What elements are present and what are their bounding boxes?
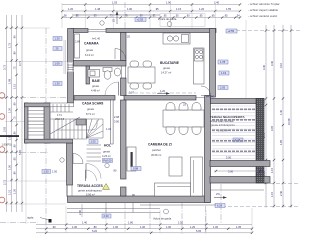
hol circle symbol (105, 163, 109, 167)
camara door arc (115, 49, 126, 60)
svg-text:.60: .60 (13, 102, 17, 106)
svg-text:3.10: 3.10 (279, 62, 283, 68)
svg-text:0.98: 0.98 (133, 167, 139, 171)
svg-text:3.40: 3.40 (262, 64, 266, 70)
svg-text:1.40: 1.40 (259, 170, 265, 174)
svg-text:1.50: 1.50 (178, 221, 184, 225)
wall left terasa edge (66, 185, 68, 197)
exterior stair wall top (25, 103, 51, 107)
svg-text:1.30: 1.30 (55, 37, 61, 41)
window in left wall (0, 0, 1, 1)
svg-text:gresie: gresie (92, 84, 100, 88)
svg-text:gresie: gresie (86, 48, 94, 52)
exterior stair wall bottom (25, 139, 73, 143)
svg-text:gresie: gresie (87, 107, 95, 111)
svg-text:+2.55: +2.55 (137, 18, 144, 22)
stair winder fan (87, 119, 104, 138)
svg-text:.65: .65 (199, 14, 203, 18)
svg-text:1.90: 1.90 (166, 1, 172, 5)
blue box top right (226, 29, 237, 33)
wall stub stair/hol (111, 100, 114, 144)
svg-text:2.92: 2.92 (3, 126, 7, 132)
stair walk line arrow (56, 120, 97, 130)
svg-text:+2.55: +2.55 (228, 29, 235, 33)
dashed level line top right (236, 30, 300, 32)
svg-text:1.05: 1.05 (91, 140, 97, 144)
dim chain bottom line 1 (36, 224, 252, 226)
svg-text:CAMARA: CAMARA (84, 42, 99, 46)
dining table kitchen (128, 67, 155, 83)
svg-text:.65: .65 (224, 14, 228, 18)
dim chain left line 4 (21, 15, 23, 212)
closet blue box (42, 170, 51, 174)
svg-text:1:50(P0): 1:50(P0) (2, 143, 12, 147)
svg-text:TERASA ACCES: TERASA ACCES (77, 184, 104, 188)
svg-text:.80: .80 (13, 131, 17, 135)
stair newel pier (76, 119, 86, 125)
svg-text:5.00: 5.00 (226, 156, 232, 160)
dim chain bottom line 2 (36, 228, 252, 230)
svg-text:1.98: 1.98 (8, 78, 12, 84)
svg-text:Volum de garda: Volum de garda (153, 217, 172, 221)
dim chain right line 2 (273, 25, 275, 208)
terrace top wall band (211, 99, 265, 104)
svg-text:.60: .60 (186, 14, 190, 18)
svg-text:1.20: 1.20 (199, 7, 205, 11)
svg-text:1.05: 1.05 (236, 225, 242, 229)
stair top band to main wall (50, 103, 74, 107)
svg-text:gresie: gresie (103, 150, 111, 154)
wall bottom exterior (68, 196, 211, 203)
closet door arc (73, 154, 83, 164)
svg-text:parchet: parchet (152, 148, 161, 152)
svg-text:1.32: 1.32 (106, 127, 112, 131)
svg-text:2.40: 2.40 (279, 190, 283, 196)
svg-text:1.20: 1.20 (68, 7, 74, 11)
chairs living table bottom (166, 127, 175, 135)
extension lines from left dims to building (5, 28, 67, 204)
garage door opening top (88, 29, 106, 31)
svg-text:- ochiuri aluminiu Tmplar: - ochiuri aluminiu Tmplar (248, 2, 280, 6)
svg-text:1.30: 1.30 (55, 82, 61, 86)
interior upper flight treads (50, 104, 73, 112)
svg-text:1.50: 1.50 (52, 170, 58, 174)
wall top exterior right part (106, 29, 216, 33)
svg-text:.54: .54 (236, 14, 240, 18)
wall right kitchen block (210, 29, 216, 98)
stair level box (89, 140, 98, 144)
section cut mark left (0, 135, 19, 137)
svg-text:gresie antiderapanta: gresie antiderapanta (211, 123, 235, 127)
blue box below steps (102, 214, 111, 218)
svg-text:14.27 m²: 14.27 m² (161, 71, 171, 75)
stair lower treads to hol (87, 145, 102, 161)
svg-text:4.23 m²: 4.23 m² (102, 154, 111, 158)
svg-text:h=0.90: h=0.90 (206, 95, 215, 99)
blue box right 1 (218, 60, 228, 64)
svg-text:gresie antiderapanta: gresie antiderapanta (78, 189, 102, 193)
closet axis circle (60, 158, 64, 162)
svg-text:TERASA NEACOPERITA: TERASA NEACOPERITA (210, 115, 246, 119)
svg-text:1.40: 1.40 (279, 109, 283, 115)
blue box right 3 (218, 86, 228, 90)
terrace lower band 2 (210, 177, 270, 184)
svg-text:2.05: 2.05 (220, 86, 226, 90)
dim chain right line 4 (290, 25, 292, 208)
svg-text:4.48 m²: 4.48 m² (91, 89, 100, 93)
svg-text:1.55: 1.55 (226, 7, 232, 11)
terrace paving lines (212, 106, 256, 159)
svg-text:5.96 m²: 5.96 m² (86, 193, 95, 197)
svg-text:- ochiuri zapezi valabile: - ochiuri zapezi valabile (248, 8, 278, 12)
lower terrace edge line (211, 189, 265, 191)
svg-text:.80: .80 (93, 225, 97, 229)
red axis marker 3 (0, 147, 5, 153)
svg-text:1.09: 1.09 (55, 62, 61, 66)
wall interior camara/baie horizontal (74, 61, 127, 67)
svg-text:.65: .65 (211, 14, 215, 18)
axis circle bottom (164, 209, 169, 214)
svg-text:HOL: HOL (104, 144, 111, 148)
svg-text:1.15: 1.15 (13, 83, 17, 89)
svg-text:1.00: 1.00 (166, 225, 172, 229)
red axis marker 2 (0, 114, 5, 120)
extension line stair bay down (25, 143, 27, 224)
svg-text:.75: .75 (13, 116, 17, 120)
blue box left col 4 (53, 82, 62, 86)
svg-text:2.30: 2.30 (78, 209, 82, 215)
terasa acces door arcs (85, 170, 87, 181)
svg-text:1.15: 1.15 (270, 191, 274, 197)
blue box left col 1 (53, 37, 62, 41)
wall stair jog (building left wall at stair) (44, 103, 50, 143)
olive triangle terasa acces (103, 184, 110, 190)
svg-text:h=1.40: h=1.40 (92, 37, 101, 41)
camara shelf (75, 34, 80, 58)
svg-text:1.50: 1.50 (8, 164, 12, 170)
opening in spine wall (120, 66, 122, 78)
dim chain top line 3 (62, 17, 240, 19)
red axis marker 4 (0, 197, 5, 203)
svg-text:5.20: 5.20 (92, 229, 98, 233)
svg-text:.95: .95 (155, 7, 159, 11)
hol entry door arc (85, 164, 87, 179)
svg-text:.38: .38 (63, 14, 67, 18)
svg-text:1.85: 1.85 (279, 139, 283, 145)
exterior stair wall left (25, 103, 29, 143)
svg-text:3.00: 3.00 (228, 170, 234, 174)
svg-text:1.40: 1.40 (82, 221, 88, 225)
axis bubble near entrance (100, 21, 104, 25)
axis dashed vertical bottom 1 (181, 203, 183, 234)
blue box right 2 (219, 71, 229, 75)
svg-text:.60: .60 (13, 144, 17, 148)
svg-text:P±0.00: P±0.00 (103, 159, 112, 163)
sofa horizontal leg (155, 183, 191, 196)
exterior stair treads (vertical flight) (28, 111, 44, 136)
svg-text:1.30: 1.30 (140, 225, 146, 229)
svg-text:5.65: 5.65 (18, 149, 22, 155)
blue box left col 2 (53, 47, 62, 51)
svg-text:- ochiuri vantului vestic: - ochiuri vantului vestic (248, 14, 278, 18)
svg-text:1.19: 1.19 (221, 71, 227, 75)
wall left exterior upper (68, 29, 74, 104)
svg-text:3.05: 3.05 (270, 125, 274, 131)
kitchen counter top row (163, 33, 190, 44)
dim chain left line 3 (16, 15, 18, 212)
dim chain right line 3 (282, 25, 284, 208)
svg-text:.75: .75 (13, 66, 17, 70)
svg-text:1.48: 1.48 (95, 7, 101, 11)
dim chain left line 1 (6, 15, 8, 212)
svg-text:1.80: 1.80 (128, 221, 134, 225)
svg-text:.90: .90 (13, 35, 17, 39)
baie door arc (118, 82, 120, 96)
chairs living table top (166, 103, 175, 111)
svg-text:1.75: 1.75 (8, 42, 12, 48)
sofa vertical leg (191, 157, 203, 196)
kitchen tall counter (194, 48, 205, 84)
dim chain left line 2 (11, 15, 13, 212)
blue box top center (135, 18, 146, 22)
axis dashed vertical A (45, 28, 47, 224)
dashed level line right low (216, 206, 300, 208)
dim chain bottom line 3 (36, 232, 252, 234)
svg-text:1.00: 1.00 (213, 225, 219, 229)
dim line between terrace bands (214, 170, 262, 172)
blue boxed level P+-0.00 (103, 159, 113, 163)
svg-text:3.73: 3.73 (18, 60, 22, 66)
svg-text:1.15: 1.15 (270, 167, 274, 173)
exterior steps bottom (67, 208, 160, 210)
wall top exterior left part (71, 29, 88, 33)
svg-text:2.40: 2.40 (214, 1, 220, 5)
red axis marker 1 (0, 93, 5, 99)
svg-text:3.73: 3.73 (3, 64, 7, 70)
svg-text:1.20: 1.20 (160, 89, 166, 93)
svg-text:1.90: 1.90 (127, 7, 133, 11)
svg-text:1.00: 1.00 (113, 225, 119, 229)
axis dashed vertical x150 low (149, 203, 151, 233)
dim chain top line 2 (62, 10, 240, 12)
svg-text:6.28: 6.28 (217, 204, 223, 208)
axis dashed horizontal bottom-left (0, 222, 38, 224)
wall interior hol/terasa vertical (121, 100, 127, 179)
axis dashed vertical terrace (220, 184, 222, 224)
dim chain top line 1 (62, 4, 240, 6)
kitchen-living door arc (201, 86, 211, 96)
axis dashed vertical entrance (124, 2, 126, 30)
svg-text:1.50: 1.50 (44, 170, 50, 174)
wall piece below hol door (121, 187, 127, 196)
wall right living room (205, 96, 211, 203)
extension lines bottom (46, 206, 252, 233)
axis dashed horizontal mid (0, 152, 48, 154)
svg-text:1.21: 1.21 (8, 189, 12, 195)
axis dashed vertical bottom 2 (205, 206, 207, 234)
baie partition vertical (86, 66, 90, 84)
coffee table (169, 157, 182, 176)
svg-text:2.08: 2.08 (114, 115, 120, 119)
svg-text:.80: .80 (13, 171, 17, 175)
axis dashed horizontal stair (0, 97, 66, 99)
terrace lower band 1 (210, 161, 270, 167)
stair diagonal cut line (50, 117, 80, 134)
eaves lines above top wall (72, 13, 160, 15)
svg-text:1.15: 1.15 (176, 7, 182, 11)
baie sink (114, 68, 120, 76)
svg-text:10.58: 10.58 (287, 118, 291, 125)
svg-text:3.40: 3.40 (270, 60, 274, 66)
svg-text:17 tr: 17 tr (57, 113, 62, 117)
blue box bottom left of sofa (131, 167, 141, 171)
blue box left col 3 (53, 62, 62, 66)
svg-text:BUCATARIE: BUCATARIE (160, 61, 180, 65)
svg-text:rigola: rigola (27, 216, 34, 220)
wall interior spine (hol/living) (121, 78, 127, 96)
svg-text:6.13 m²: 6.13 m² (85, 53, 94, 57)
svg-text:1.78: 1.78 (220, 60, 226, 64)
baie toilet (103, 68, 112, 72)
wall left exterior lower (67, 143, 73, 185)
svg-text:.65: .65 (13, 157, 17, 161)
dining table living (163, 110, 204, 127)
wall mid horizontal (kitchen/living separation) (74, 96, 115, 101)
extension line terrace right top (245, 20, 247, 98)
baie vanity (88, 70, 100, 78)
blue box terrace mid (233, 138, 243, 142)
svg-text:2.88: 2.88 (75, 40, 81, 44)
svg-text:1.20: 1.20 (190, 225, 196, 229)
svg-text:28x17.5: 28x17.5 (55, 117, 65, 121)
fireplace unit living (127, 147, 136, 171)
svg-text:CASA SCARII: CASA SCARII (82, 102, 103, 106)
blue box below terrace (215, 204, 225, 208)
north circle (167, 22, 172, 27)
svg-text:1.20: 1.20 (13, 188, 17, 194)
kitchen-living door threshold (196, 97, 205, 99)
terrace paving slab rows (212, 108, 256, 110)
dashed level line right mid (264, 183, 300, 185)
chairs kitchen table (130, 61, 139, 67)
svg-text:1.00: 1.00 (72, 225, 78, 229)
staircase treads main flight (50, 119, 87, 139)
small vertical dim below wall (81, 204, 83, 217)
svg-text:gresie: gresie (163, 66, 171, 70)
svg-text:8.71 m²: 8.71 m² (86, 112, 95, 116)
wall interior camara right (121, 33, 127, 61)
svg-text:BAIE: BAIE (92, 79, 101, 83)
svg-text:1.20: 1.20 (8, 107, 12, 113)
svg-text:.90: .90 (52, 225, 56, 229)
dim chain right line 1 (265, 25, 267, 208)
entrance arrow top (116, 13, 118, 24)
svg-text:36.08 m²: 36.08 m² (151, 153, 161, 157)
svg-text:2.30: 2.30 (104, 214, 110, 218)
svg-text:intrare de garda: intrare de garda (158, 17, 177, 21)
axis dashed vertical entrance low (124, 203, 126, 233)
svg-text:3.07: 3.07 (129, 91, 135, 95)
terrace right wall band (dense) (256, 99, 264, 183)
extension lines from top dims to building (62, 3, 215, 28)
svg-text:2.73: 2.73 (3, 179, 7, 185)
svg-text:1.93: 1.93 (112, 1, 118, 5)
svg-text:5.05: 5.05 (196, 229, 202, 233)
canopy outline entrance (160, 14, 205, 27)
svg-text:3.90: 3.90 (114, 120, 120, 124)
svg-text:CAMERA DE ZI: CAMERA DE ZI (148, 143, 172, 147)
svg-text:.80: .80 (13, 51, 17, 55)
